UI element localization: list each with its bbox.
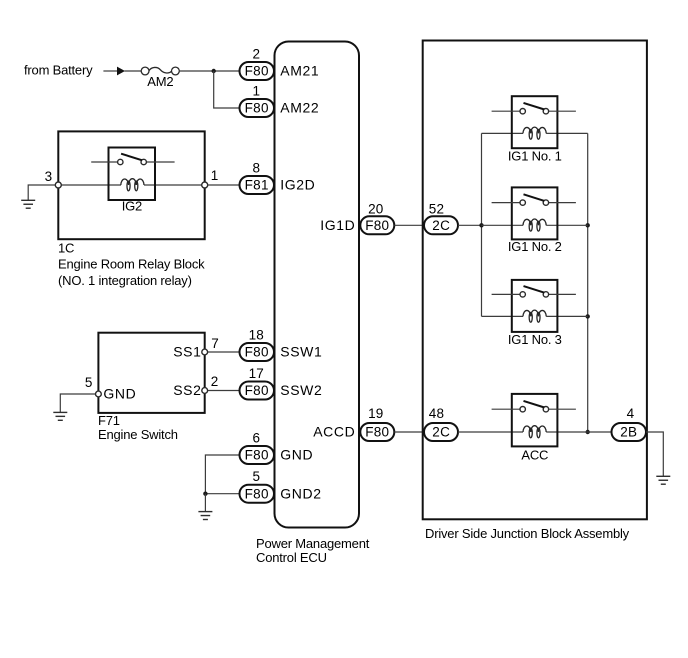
svg-text:2C: 2C xyxy=(432,425,450,440)
relay ACC switch xyxy=(492,401,576,412)
wire: coil leads IG1 No.1 xyxy=(482,132,524,134)
svg-text:2B: 2B xyxy=(620,425,637,440)
svg-text:AM22: AM22 xyxy=(280,100,319,116)
connector 2C pin 48 xyxy=(424,423,458,441)
svg-text:5: 5 xyxy=(252,469,260,484)
svg-text:SS2: SS2 xyxy=(173,382,201,398)
relay IG2 switch blade xyxy=(121,154,142,161)
connector F80 pin 1 (AM22) xyxy=(240,99,275,117)
svg-text:F80: F80 xyxy=(245,64,269,79)
ground: 2B output xyxy=(656,476,670,484)
svg-text:2: 2 xyxy=(252,46,260,61)
connector F80 pin 18 (SSW1) xyxy=(240,343,275,361)
svg-text:GND: GND xyxy=(280,447,313,463)
svg-text:F80: F80 xyxy=(245,101,269,116)
svg-text:Control ECU: Control ECU xyxy=(256,550,327,565)
fuse AM2 xyxy=(141,67,179,75)
svg-text:IG1D: IG1D xyxy=(320,217,355,233)
wire: GND oval to ground bus xyxy=(205,455,240,494)
svg-text:AM2: AM2 xyxy=(147,74,173,89)
wire: SS2 to F80 xyxy=(207,390,240,392)
svg-text:GND: GND xyxy=(103,386,136,402)
svg-text:GND2: GND2 xyxy=(280,485,321,501)
svg-text:ACCD: ACCD xyxy=(313,424,355,440)
svg-text:20: 20 xyxy=(368,202,383,217)
pin SS1 circle (7) xyxy=(202,349,208,355)
relay IG1 No.2 box xyxy=(512,187,558,239)
svg-text:2: 2 xyxy=(211,374,219,389)
relay IG1 No.2 switch xyxy=(492,194,576,205)
svg-text:IG1 No. 1: IG1 No. 1 xyxy=(508,149,562,164)
svg-text:F81: F81 xyxy=(245,178,269,193)
relay IG2 coil xyxy=(121,179,144,191)
pin 1 circle xyxy=(202,182,208,188)
svg-text:1C: 1C xyxy=(58,241,74,256)
connector F80 pin 17 (SSW2) xyxy=(240,382,275,400)
svg-text:Engine Switch: Engine Switch xyxy=(98,427,178,442)
wire: F80 to 2C (IG1D) xyxy=(394,224,425,226)
svg-text:ACC: ACC xyxy=(521,447,548,462)
power management control ECU box xyxy=(275,42,360,528)
wire: coil leads IG1 No.2 xyxy=(482,224,524,226)
junction dot right bus at IG1 No.3 xyxy=(586,314,590,318)
relay ACC coil xyxy=(523,426,546,438)
engine room relay block 1C outer box xyxy=(58,131,204,239)
connector F80 pin 6 (GND) xyxy=(240,446,275,464)
relay IG2 switch contacts xyxy=(118,159,123,164)
right bus vertical xyxy=(587,133,589,432)
junction dot GND2 xyxy=(203,492,207,496)
wire: ground bus to GND2 oval xyxy=(205,493,240,495)
svg-text:1: 1 xyxy=(211,168,219,183)
wire: F80 to 2C (ACCD) xyxy=(394,431,425,433)
wire: pin 1 to F81 xyxy=(208,184,240,186)
connector 2B pin 4 xyxy=(612,423,647,441)
wire: 2C 52 to left bus xyxy=(458,224,482,226)
svg-text:F71: F71 xyxy=(98,413,120,428)
relay IG1 No.3 box xyxy=(512,280,558,332)
relay IG2 switch leads xyxy=(91,161,117,163)
svg-text:F80: F80 xyxy=(245,448,269,463)
svg-text:(NO. 1 integration relay): (NO. 1 integration relay) xyxy=(58,273,192,288)
svg-text:6: 6 xyxy=(252,430,260,445)
relay IG1 No.3 coil xyxy=(523,310,546,322)
svg-text:4: 4 xyxy=(627,406,635,421)
connector F80 pin 19 (ACCD) xyxy=(360,423,394,441)
svg-text:IG1 No. 3: IG1 No. 3 xyxy=(508,332,562,347)
ground: engine room relay block xyxy=(28,185,55,200)
wire: fuse to node A xyxy=(179,70,240,72)
relay IG1 No.1 coil xyxy=(523,127,546,139)
relay ACC box xyxy=(512,394,558,447)
svg-text:from Battery: from Battery xyxy=(24,63,93,78)
svg-text:F80: F80 xyxy=(245,486,269,501)
connector F80 pin 5 (GND2) xyxy=(240,485,275,503)
svg-text:F80: F80 xyxy=(365,425,389,440)
svg-text:F80: F80 xyxy=(245,345,269,360)
svg-text:IG1 No. 2: IG1 No. 2 xyxy=(508,239,562,254)
wire: coil leads IG1 No.3 xyxy=(482,315,524,317)
wire: battery feed line xyxy=(103,70,117,72)
svg-text:3: 3 xyxy=(45,169,53,184)
svg-text:17: 17 xyxy=(249,366,264,381)
junction dot left bus xyxy=(479,223,483,227)
svg-text:7: 7 xyxy=(211,336,219,351)
node A junction dot xyxy=(212,69,216,73)
engine switch F71 box xyxy=(98,333,204,413)
svg-text:AM21: AM21 xyxy=(280,63,319,79)
svg-text:52: 52 xyxy=(429,202,444,217)
connector F81 pin 8 (IG2D) xyxy=(240,176,275,194)
relay IG1 No.2 coil xyxy=(523,219,546,231)
wire: ACC coil to right bus to 2B xyxy=(546,431,612,433)
relay IG1 No.1 switch xyxy=(492,103,576,114)
wire: 2C 48 to ACC coil xyxy=(458,431,523,433)
svg-text:19: 19 xyxy=(368,406,383,421)
svg-text:SS1: SS1 xyxy=(173,344,201,360)
connector F80 pin 2 (AM21) xyxy=(240,62,275,80)
junction dot right bus at ACC xyxy=(586,430,590,434)
relay IG1 No.3 switch xyxy=(492,286,576,297)
svg-text:48: 48 xyxy=(429,406,444,421)
connector 2C pin 52 xyxy=(424,216,458,234)
svg-text:1: 1 xyxy=(252,83,260,98)
pin SS2 circle (2) xyxy=(202,388,208,394)
driver side junction block assembly box xyxy=(423,41,647,520)
wire: pin 3 to IG2 coil xyxy=(61,184,121,186)
wire: node A down to AM22 row xyxy=(214,71,240,108)
svg-text:IG2: IG2 xyxy=(122,199,142,214)
svg-text:8: 8 xyxy=(252,160,260,175)
svg-text:Driver Side Junction Block Ass: Driver Side Junction Block Assembly xyxy=(425,526,630,541)
wire: SS1 to F80 xyxy=(207,351,240,353)
svg-text:SSW1: SSW1 xyxy=(280,344,322,360)
svg-text:IG2D: IG2D xyxy=(280,177,315,193)
ground: engine switch xyxy=(60,394,95,412)
wire: IG2 coil to pin 1 xyxy=(144,184,202,186)
junction dot right bus at IG1 No.2 xyxy=(586,223,590,227)
svg-text:Engine Room Relay Block: Engine Room Relay Block xyxy=(58,257,205,272)
arrow: battery feed direction xyxy=(117,67,125,76)
pin 3 circle xyxy=(55,182,61,188)
svg-text:18: 18 xyxy=(249,327,264,342)
wire: 2B to ground xyxy=(646,432,663,476)
wire: arrow to fuse xyxy=(125,70,142,72)
svg-text:5: 5 xyxy=(85,375,93,390)
pin GND circle (5) xyxy=(96,391,102,397)
ground: ECU GND xyxy=(204,494,206,512)
svg-text:F80: F80 xyxy=(365,218,389,233)
relay IG1 No.1 box xyxy=(512,96,558,148)
left bus vertical xyxy=(481,133,483,316)
connector F80 pin 20 (IG1D) xyxy=(360,216,394,234)
relay IG2 box xyxy=(109,148,156,201)
svg-text:F80: F80 xyxy=(245,383,269,398)
svg-text:Power Management: Power Management xyxy=(256,536,370,551)
svg-text:2C: 2C xyxy=(432,218,450,233)
svg-text:SSW2: SSW2 xyxy=(280,382,322,398)
